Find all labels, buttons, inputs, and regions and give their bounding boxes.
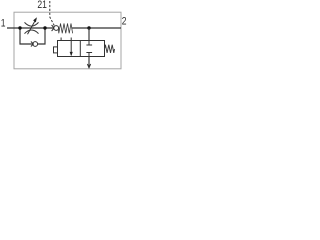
valve U1 return spring bbox=[105, 45, 115, 53]
valve U1 pilot tab bbox=[54, 47, 58, 53]
throttle arrow head bbox=[33, 17, 37, 22]
exhaust arrow (open) bbox=[87, 64, 90, 68]
throttle valve (adjustable restriction) bbox=[25, 21, 39, 35]
pilot check valve ball bbox=[54, 26, 59, 31]
wire check-valve branch bbox=[20, 28, 45, 44]
frame bbox=[14, 12, 121, 69]
pilot line 21 (dashed) bbox=[50, 1, 55, 26]
valve U1 port stub a bbox=[60, 38, 62, 41]
pilot check valve seat bbox=[52, 25, 55, 31]
valve U1 port stub b bbox=[70, 38, 72, 41]
wire pilot branch down to valve bbox=[88, 28, 90, 41]
node junction right bbox=[87, 26, 90, 29]
wire main line 1-2 bbox=[7, 27, 121, 29]
valve U1 blocked port top (T) bbox=[86, 41, 92, 46]
valve U1 left position flow path bbox=[70, 41, 72, 56]
valve U1 blocked port bottom (T) bbox=[86, 53, 92, 57]
svg-text:1: 1 bbox=[1, 18, 6, 30]
node junction left bbox=[18, 26, 21, 29]
valve U1 flow arrow head bbox=[70, 52, 73, 56]
valve U1 body bbox=[58, 41, 105, 57]
valve U1 position divider bbox=[79, 41, 81, 57]
check valve V1 seat bbox=[31, 42, 34, 47]
pilot check valve spring bbox=[58, 23, 72, 33]
node junction mid bbox=[43, 26, 46, 29]
svg-text:21: 21 bbox=[37, 0, 47, 12]
wire exhaust below valve bbox=[88, 57, 90, 68]
check valve V1 (bypass) ball bbox=[33, 42, 38, 47]
svg-text:2: 2 bbox=[122, 15, 127, 27]
